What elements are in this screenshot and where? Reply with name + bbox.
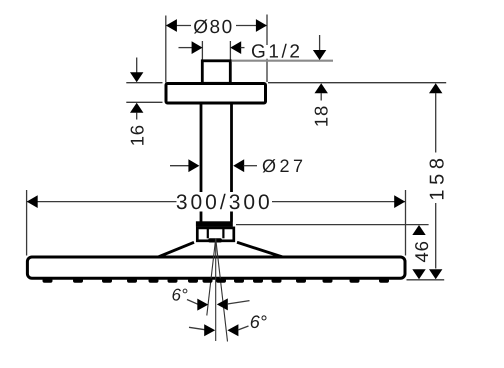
dome slant left [157,242,194,257]
dim G1/2 arrowhead left [192,41,203,54]
dim 16 up arrowhead [130,103,143,113]
dim 46 up arrowhead [412,225,425,235]
dim 16 up arrow shaft [136,113,138,120]
svg-text:G1/2: G1/2 [251,41,303,62]
spray right line [216,239,228,342]
flange [166,84,266,104]
dim G1/2 right arrow shaft [241,47,245,49]
dim Ø80 extension line right lower [266,59,268,82]
dim 158 upper shaft [435,93,437,153]
svg-text:46: 46 [411,240,432,262]
mask behind 300/300 label [178,192,271,212]
spray center line [215,239,217,342]
connector nut body [197,228,234,241]
dim G1/2 left arrow shaft [179,47,194,49]
ceiling down arrowhead [313,50,326,60]
dim Ø27 right arrow shaft [244,165,258,167]
dim 300/300 line right segment [272,201,405,203]
dim 18 up arrow shaft [320,93,322,101]
svg-text:6°: 6° [172,286,188,305]
dim Ø80 arrowhead left [166,19,177,32]
dim 300/300 extension line left [26,190,28,256]
spray left line [207,239,216,316]
dim 18 up arrowhead [315,83,328,93]
ceiling down arrow shaft [319,35,321,52]
svg-text:300/300: 300/300 [176,191,273,214]
dim Ø27 arrowhead left [188,159,199,172]
dim 158 lower shaft [435,203,437,269]
dim Ø80 line left segment [167,25,192,27]
angle upper arrowhead left-pointing [217,298,228,310]
dim 300/300 extension line right [405,190,407,256]
dim 300/300 arrowhead right [394,195,405,208]
dim 16 extension line top [126,82,162,84]
angle upper leader [187,300,198,305]
svg-text:Ø80: Ø80 [193,17,233,38]
dim Ø80 arrowhead right [256,19,267,32]
nozzle bumps row [43,278,390,283]
angle upper right shaft [227,301,249,304]
dim 16 extension line bottom [126,101,162,103]
ceiling reference line [232,60,333,62]
angle lower arrowhead left-pointing [227,324,238,336]
svg-text:18: 18 [311,105,332,127]
dim Ø27 left arrow shaft [170,165,190,167]
dim 300/300 line left segment [27,201,176,203]
angle lower leader [238,326,249,330]
angle upper arrowhead right-pointing [197,299,208,311]
dim G1/2 extension line right [229,41,231,61]
dim 46 top extension line [236,224,429,226]
svg-text:16: 16 [127,124,148,146]
dim 46 down arrowhead [412,269,425,279]
nut inner line left [207,229,209,239]
dim Ø80 extension line right upper [266,15,268,46]
angle lower left shaft [189,327,205,329]
connector nut top bar [196,221,233,226]
dim Ø80 line right segment [236,25,267,27]
angle lower arrowhead right-pointing [204,324,215,336]
dim 16 down arrow shaft [136,58,138,74]
dim Ø27 arrowhead right [233,159,244,172]
svg-text:158: 158 [427,153,449,200]
dim G1/2 arrowhead right [230,41,241,54]
nozzle bar [208,238,222,242]
bottom extension line right [407,279,445,281]
dim Ø80 extension line left [165,16,167,83]
flange top extension line right [268,82,446,84]
pipe wall left [200,105,203,222]
dim 300/300 arrowhead left [27,195,38,208]
dim G1/2 extension line left [201,41,203,61]
dome slant right [237,242,284,257]
pipe wall right [230,105,233,222]
svg-text:Ø27: Ø27 [262,156,307,176]
nut inner line right [222,229,224,239]
dim 158 up arrowhead [429,83,442,93]
dim 158 down arrowhead [429,269,442,279]
thread stub G1/2 [202,61,230,84]
svg-text:6°: 6° [250,312,267,332]
shower head body [27,257,405,278]
dim 16 down arrowhead [130,72,143,82]
